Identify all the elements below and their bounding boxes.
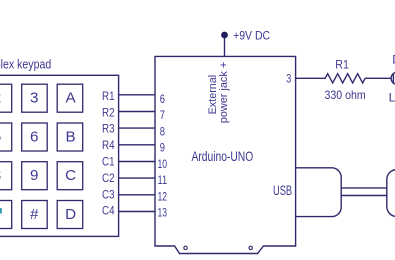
svg-text:7: 7 xyxy=(160,108,165,122)
svg-text:3: 3 xyxy=(30,90,38,107)
svg-text:power jack +: power jack + xyxy=(218,61,230,123)
svg-text:12: 12 xyxy=(158,189,168,203)
svg-text:USB: USB xyxy=(273,183,292,198)
svg-text:R1: R1 xyxy=(335,59,349,71)
svg-text:330 ohm: 330 ohm xyxy=(325,89,366,102)
svg-text:10: 10 xyxy=(158,157,168,171)
svg-text:R3: R3 xyxy=(102,122,115,136)
svg-text:Arduino-UNO: Arduino-UNO xyxy=(192,148,254,164)
svg-text:C1: C1 xyxy=(102,155,115,169)
svg-text:2: 2 xyxy=(0,90,1,107)
svg-text:R1: R1 xyxy=(102,89,115,103)
svg-text:6: 6 xyxy=(160,92,165,106)
svg-text:C4: C4 xyxy=(102,204,115,218)
svg-text:R2: R2 xyxy=(102,105,115,119)
svg-text:A: A xyxy=(66,90,77,107)
svg-text:B: B xyxy=(66,128,76,145)
svg-text:9: 9 xyxy=(30,167,38,184)
svg-text:R4: R4 xyxy=(102,138,115,152)
svg-text:8: 8 xyxy=(0,167,1,184)
svg-text:#: # xyxy=(30,206,39,223)
svg-text:6: 6 xyxy=(30,128,38,145)
svg-text:3: 3 xyxy=(286,72,291,86)
svg-text:C3: C3 xyxy=(102,187,115,201)
svg-text:plex keypad: plex keypad xyxy=(0,56,51,71)
svg-text:8: 8 xyxy=(160,124,165,138)
svg-text:13: 13 xyxy=(158,206,168,220)
svg-text:5: 5 xyxy=(0,128,1,145)
svg-text:+9V DC: +9V DC xyxy=(233,28,270,42)
svg-text:11: 11 xyxy=(158,173,168,187)
svg-text:External: External xyxy=(207,75,219,115)
svg-text:D: D xyxy=(65,206,76,223)
svg-text:C2: C2 xyxy=(102,171,115,185)
svg-text:C: C xyxy=(65,167,76,184)
svg-text:9: 9 xyxy=(160,141,165,155)
